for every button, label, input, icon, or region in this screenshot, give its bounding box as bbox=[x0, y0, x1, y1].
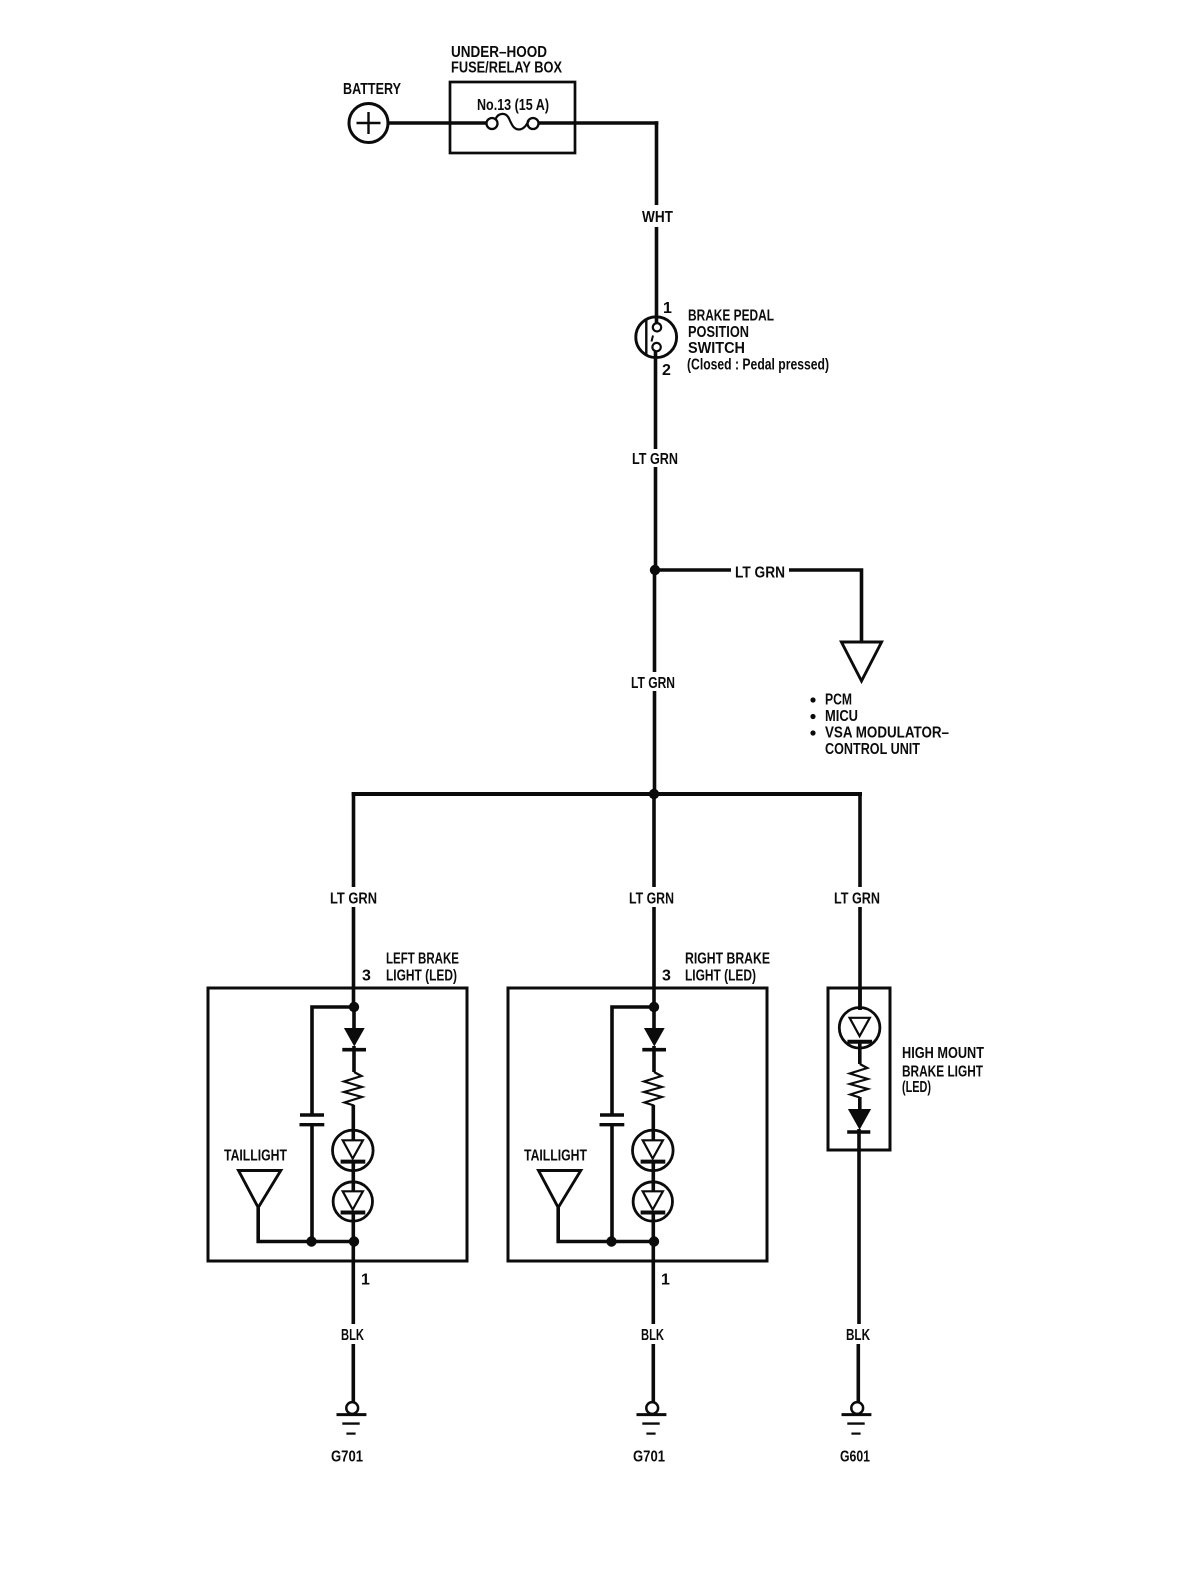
right brake light box bbox=[508, 988, 767, 1261]
svg-text:LIGHT (LED): LIGHT (LED) bbox=[685, 968, 756, 985]
svg-text:POSITION: POSITION bbox=[688, 324, 749, 341]
wire resistor to LED1 bbox=[351, 1105, 355, 1140]
svg-text:UNDER–HOOD: UNDER–HOOD bbox=[451, 44, 547, 61]
wire diode to resistor R1 bbox=[352, 1046, 356, 1072]
resistor R2 bbox=[644, 1072, 662, 1106]
capacitor C2 bbox=[600, 1113, 624, 1116]
wire switch to LT GRN gap bbox=[654, 351, 658, 449]
svg-text:LT GRN: LT GRN bbox=[629, 891, 674, 908]
wire LT GRN to right box junction bbox=[652, 907, 656, 1009]
svg-text:LT GRN: LT GRN bbox=[632, 451, 678, 468]
wire left box junction to capacitor branch bbox=[312, 1007, 354, 1114]
ground G701 (middle) bbox=[646, 1402, 658, 1414]
wire right branch down bbox=[858, 792, 862, 887]
wire resistor to LED3 bbox=[651, 1105, 655, 1140]
fuse No.13 (15 A) bbox=[487, 118, 498, 129]
svg-text:SWITCH: SWITCH bbox=[688, 340, 745, 357]
middle box bottom junction node bbox=[649, 1236, 659, 1246]
under-hood fuse/relay box bbox=[450, 82, 575, 153]
svg-text:FUSE/RELAY BOX: FUSE/RELAY BOX bbox=[451, 60, 562, 77]
ground G601 bbox=[851, 1402, 863, 1414]
left box bottom junction node bbox=[349, 1236, 359, 1246]
LED DS4 bbox=[633, 1182, 672, 1221]
svg-text:TAILLIGHT: TAILLIGHT bbox=[524, 1148, 587, 1165]
taillight arrow (right) bbox=[539, 1171, 581, 1208]
wire WHT to switch pin 1 bbox=[655, 227, 659, 323]
svg-text:BLK: BLK bbox=[341, 1327, 364, 1344]
middle box top junction node bbox=[649, 1002, 659, 1012]
wire taillight to bottom rail bbox=[258, 1208, 354, 1242]
svg-text:1: 1 bbox=[361, 1272, 370, 1289]
wire LED1 to LED2 bbox=[351, 1162, 355, 1192]
arrow to PCM/MICU/VSA bbox=[841, 642, 881, 681]
taillight arrow (left) bbox=[239, 1171, 281, 1208]
wire LT GRN to junction bbox=[654, 467, 658, 572]
wire junction to LT GRN gap (right branch) bbox=[655, 568, 731, 572]
svg-text:VSA MODULATOR–: VSA MODULATOR– bbox=[825, 725, 949, 742]
svg-text:G701: G701 bbox=[331, 1449, 363, 1466]
junction node capacitor/bottom rail bbox=[606, 1236, 616, 1246]
left box top junction node bbox=[349, 1002, 359, 1012]
LED DS2 bbox=[333, 1182, 372, 1221]
left brake light label bbox=[362, 951, 459, 985]
wire left branch down bbox=[352, 792, 356, 887]
svg-text:No.13 (15 A): No.13 (15 A) bbox=[477, 97, 549, 114]
wire corner down to WHT gap bbox=[655, 121, 659, 205]
high mount brake light label bbox=[902, 1045, 984, 1096]
wire junction down to LT GRN gap bbox=[653, 570, 657, 672]
wire BLK to ground (middle) bbox=[651, 1344, 655, 1402]
diode D1 bbox=[344, 1028, 365, 1047]
junction node A bbox=[650, 565, 660, 575]
svg-text:3: 3 bbox=[662, 968, 671, 985]
wire resistor to diode D3 bbox=[858, 1097, 862, 1110]
wire taillight to bottom rail bbox=[558, 1208, 654, 1242]
svg-text:BRAKE LIGHT: BRAKE LIGHT bbox=[902, 1064, 983, 1081]
svg-text:BATTERY: BATTERY bbox=[343, 81, 401, 98]
wire junction to diode D2 bbox=[652, 1007, 656, 1029]
svg-text:G601: G601 bbox=[840, 1449, 870, 1466]
capacitor C1 bbox=[300, 1113, 324, 1116]
wire LED2 to bottom junction bbox=[351, 1213, 355, 1243]
left brake light box bbox=[208, 988, 467, 1261]
wire diode through box bottom to BLK gap bbox=[857, 1129, 861, 1324]
svg-text:BLK: BLK bbox=[846, 1327, 870, 1344]
wire fuse to corner bbox=[539, 121, 659, 125]
wire LED to resistor R3 bbox=[858, 1042, 862, 1064]
svg-text:BRAKE PEDAL: BRAKE PEDAL bbox=[688, 308, 774, 325]
svg-text:BLK: BLK bbox=[641, 1327, 664, 1344]
right brake light label bbox=[662, 951, 770, 985]
svg-text:(Closed : Pedal pressed): (Closed : Pedal pressed) bbox=[687, 357, 829, 374]
LED DS5 (high mount) bbox=[839, 1008, 880, 1049]
LED DS3 bbox=[633, 1130, 674, 1171]
destination list PCM / MICU / VSA modulator-control unit bbox=[810, 692, 949, 759]
svg-text:MICU: MICU bbox=[825, 708, 858, 725]
brake pedal position switch bbox=[636, 317, 677, 358]
wire middle box junction to capacitor branch bbox=[612, 1007, 654, 1114]
svg-text:HIGH MOUNT: HIGH MOUNT bbox=[902, 1045, 984, 1062]
svg-text:1: 1 bbox=[663, 300, 672, 317]
wire LT GRN to bus bbox=[653, 691, 657, 794]
wire left box pin 1 down to BLK gap bbox=[351, 1242, 355, 1325]
svg-text:PCM: PCM bbox=[825, 692, 852, 709]
wire LED3 to LED4 bbox=[651, 1162, 655, 1192]
svg-text:LT GRN: LT GRN bbox=[735, 565, 785, 582]
svg-text:WHT: WHT bbox=[642, 209, 673, 226]
svg-text:G701: G701 bbox=[633, 1449, 665, 1466]
LED DS1 bbox=[333, 1130, 374, 1171]
ground G701 (left) bbox=[346, 1402, 358, 1414]
diode D2 bbox=[644, 1028, 665, 1047]
svg-text:2: 2 bbox=[662, 362, 671, 379]
wire BLK to ground (left) bbox=[351, 1344, 355, 1402]
wire middle box pin 1 down to BLK gap bbox=[651, 1242, 655, 1325]
brake pedal position switch label bbox=[687, 308, 829, 374]
wire battery to fuse bbox=[388, 121, 487, 125]
wire LT GRN into high mount box bbox=[858, 907, 862, 1010]
wire BLK to ground (right) bbox=[856, 1344, 860, 1402]
bus junction node bbox=[649, 789, 659, 799]
wire LT GRN to left box junction bbox=[352, 907, 356, 1009]
junction node capacitor/bottom rail bbox=[306, 1236, 316, 1246]
svg-text:3: 3 bbox=[362, 968, 371, 985]
svg-text:LT GRN: LT GRN bbox=[834, 891, 880, 908]
svg-text:CONTROL UNIT: CONTROL UNIT bbox=[825, 741, 920, 758]
wire capacitor to bottom rail bbox=[310, 1125, 314, 1242]
svg-text:LIGHT (LED): LIGHT (LED) bbox=[386, 968, 457, 985]
wire capacitor to bottom rail bbox=[610, 1125, 614, 1242]
svg-text:LT GRN: LT GRN bbox=[631, 675, 675, 692]
svg-text:(LED): (LED) bbox=[902, 1079, 931, 1096]
wire diode to resistor R2 bbox=[652, 1046, 656, 1072]
high mount brake light box bbox=[828, 988, 890, 1150]
svg-text:RIGHT BRAKE: RIGHT BRAKE bbox=[685, 951, 770, 968]
svg-text:1: 1 bbox=[661, 1272, 670, 1289]
battery B1 bbox=[349, 104, 388, 143]
wire LED4 to bottom junction bbox=[651, 1213, 655, 1243]
wire into high mount LED bbox=[858, 988, 862, 1010]
wire LT GRN to corner and down to arrow bbox=[789, 570, 862, 642]
svg-text:TAILLIGHT: TAILLIGHT bbox=[224, 1148, 287, 1165]
svg-text:LEFT BRAKE: LEFT BRAKE bbox=[386, 951, 459, 968]
svg-text:LT GRN: LT GRN bbox=[330, 891, 377, 908]
wire junction to diode D1 bbox=[352, 1007, 356, 1029]
bus wire bbox=[352, 792, 862, 796]
resistor R3 bbox=[850, 1064, 868, 1098]
diode D3 bbox=[848, 1109, 871, 1130]
resistor R1 bbox=[344, 1072, 362, 1106]
wire middle branch down bbox=[652, 794, 656, 887]
